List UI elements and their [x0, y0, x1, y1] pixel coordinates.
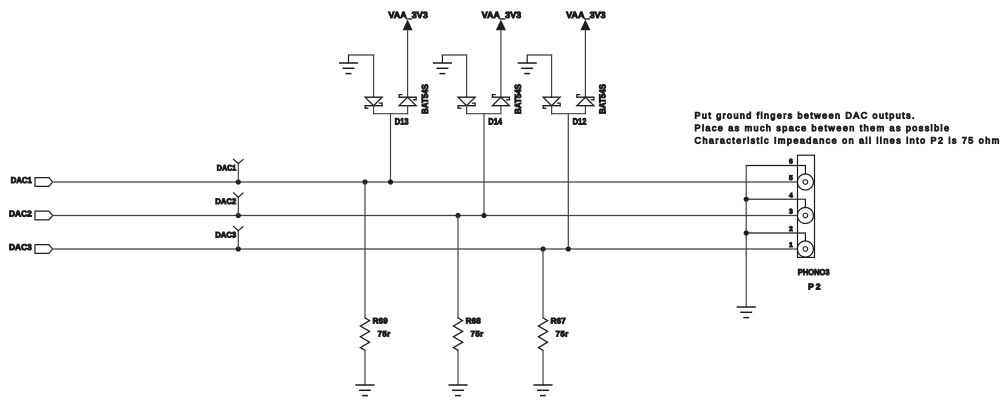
power VAA_3V3 (D13) — [388, 10, 428, 97]
svg-text:Put ground fingers between DAC: Put ground fingers between DAC outputs. — [695, 111, 915, 121]
jack 1 center pin — [803, 180, 808, 185]
resistor R69 — [360, 316, 390, 350]
svg-text:VAA_3V3: VAA_3V3 — [482, 10, 522, 20]
node DAC3 net stub — [215, 226, 243, 251]
svg-text:DAC1: DAC1 — [11, 175, 32, 185]
svg-text:Place as much space between th: Place as much space between them as poss… — [695, 123, 950, 133]
junction pin2/ground bus — [744, 230, 749, 235]
svg-text:R69: R69 — [373, 316, 389, 325]
wire ground to anode of D13A — [349, 54, 374, 56]
svg-text:2: 2 — [789, 226, 793, 233]
svg-text:1: 1 — [789, 242, 793, 249]
wire DAC to R69 — [364, 182, 366, 318]
diode D13A (left, anode up) — [365, 55, 382, 114]
port DAC2 — [9, 209, 53, 220]
port DAC1 — [11, 175, 53, 186]
svg-text:4: 4 — [789, 192, 793, 199]
wire ground to anode of D12A — [527, 54, 551, 56]
ground (clamp D12) — [518, 55, 536, 74]
wire D12 common cathode bottom — [552, 113, 586, 115]
ground (under R67) — [534, 385, 552, 396]
svg-text:DAC3: DAC3 — [9, 242, 32, 252]
wire R68 to ground — [457, 350, 459, 385]
svg-text:BAT54S: BAT54S — [598, 84, 608, 114]
svg-text:BAT54S: BAT54S — [513, 84, 523, 114]
node DAC2 net stub — [215, 193, 243, 218]
resistor R67 — [538, 316, 568, 350]
junction D14/DAC line — [481, 213, 486, 218]
wire DAC3 horizontal — [53, 248, 798, 250]
svg-text:PHONO3: PHONO3 — [798, 267, 830, 277]
wire shield pin 2 bend — [746, 233, 805, 241]
junction R67/DAC line — [540, 246, 545, 251]
junction R68/DAC line — [455, 213, 460, 218]
wire D13 common cathode bottom — [374, 113, 408, 115]
diode D12A (left, anode up) — [543, 55, 560, 114]
wire shield pin 4 bend — [746, 199, 805, 207]
wire DAC to R68 — [457, 216, 459, 318]
wire R67 to ground — [542, 350, 544, 385]
diode D14B (right, cathode up) — [492, 95, 509, 114]
power VAA_3V3 (D12) — [566, 10, 606, 97]
svg-text:75r: 75r — [378, 329, 391, 338]
wire DAC to R67 — [542, 249, 544, 318]
junction D13/DAC line — [388, 179, 393, 184]
note text — [695, 111, 1000, 146]
jack 2 outer (phono) — [797, 208, 813, 224]
port DAC3 — [9, 242, 53, 253]
wire D13 drop to DAC line — [390, 114, 392, 182]
jack 1 outer (phono) — [797, 174, 813, 190]
ground (under R69) — [356, 385, 374, 396]
jack 2 center pin — [803, 213, 808, 218]
wire DAC1 horizontal — [53, 181, 798, 183]
ground (connector shield) — [737, 307, 755, 318]
wire DAC2 horizontal — [53, 215, 798, 217]
wire D12 drop to DAC line — [567, 114, 569, 249]
ground (clamp D13) — [340, 55, 358, 74]
svg-text:Characteristic Impeadance on a: Characteristic Impeadance on all lines i… — [695, 136, 1000, 146]
svg-text:75r: 75r — [556, 329, 569, 338]
resistor R68 — [453, 316, 483, 350]
diode D13B (right, cathode up) — [399, 95, 416, 114]
svg-text:DAC3: DAC3 — [215, 231, 237, 240]
wire D14 common cathode bottom — [467, 113, 501, 115]
diode D12B (right, cathode up) — [577, 95, 594, 114]
svg-text:3: 3 — [789, 209, 793, 216]
connector P2 body — [798, 155, 815, 257]
junction pin4/ground bus — [744, 197, 749, 202]
wire shield pin 6 bend — [746, 166, 805, 175]
svg-text:6: 6 — [789, 159, 793, 166]
wire ground to anode of D14A — [442, 54, 466, 56]
jack 3 center pin — [803, 247, 808, 252]
node DAC1 net stub — [217, 159, 243, 184]
wire D14 drop to DAC line — [483, 114, 485, 216]
svg-text:5: 5 — [789, 175, 793, 182]
svg-text:D12: D12 — [573, 116, 587, 126]
svg-text:D13: D13 — [395, 116, 409, 126]
diode D14A (left, anode up) — [458, 55, 475, 114]
wire ground bus vertical — [745, 166, 747, 307]
svg-text:DAC1: DAC1 — [217, 164, 237, 173]
wire R69 to ground — [364, 350, 366, 385]
power VAA_3V3 (D14) — [482, 10, 522, 97]
svg-text:BAT54S: BAT54S — [420, 84, 430, 114]
svg-text:VAA_3V3: VAA_3V3 — [566, 10, 606, 20]
svg-text:VAA_3V3: VAA_3V3 — [388, 10, 428, 20]
svg-text:DAC2: DAC2 — [215, 197, 237, 206]
ground (clamp D14) — [434, 55, 452, 74]
svg-text:R68: R68 — [466, 316, 482, 325]
junction R69/DAC line — [362, 179, 367, 184]
ground (under R68) — [449, 385, 467, 396]
svg-text:D14: D14 — [488, 116, 502, 126]
svg-text:R67: R67 — [551, 316, 567, 325]
svg-text:75r: 75r — [471, 329, 484, 338]
jack 3 outer (phono) — [797, 241, 813, 257]
junction D12/DAC line — [566, 246, 571, 251]
svg-text:DAC2: DAC2 — [9, 209, 32, 219]
